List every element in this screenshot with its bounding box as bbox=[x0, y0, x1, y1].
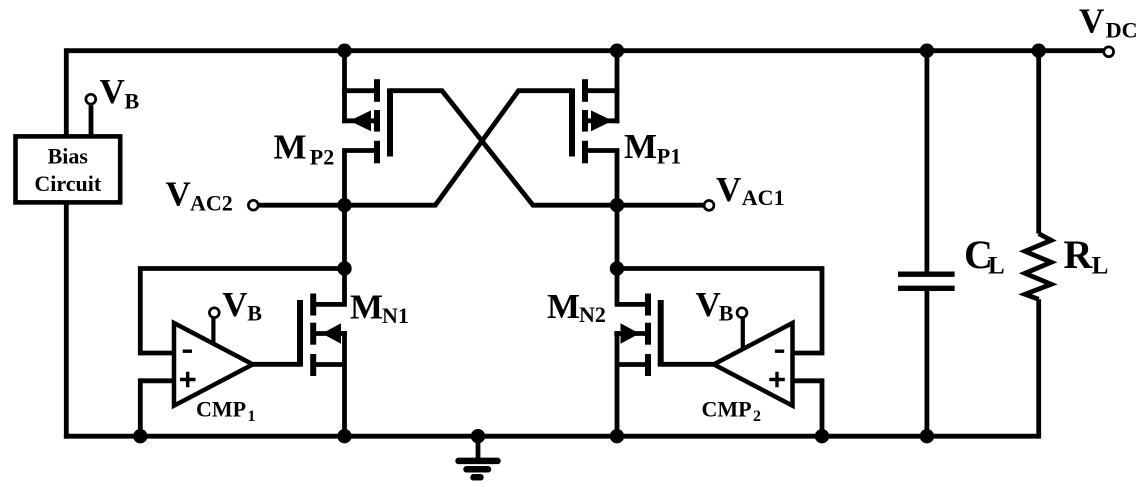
svg-text:L: L bbox=[1092, 253, 1109, 280]
terminal VAC1 bbox=[617, 201, 714, 211]
svg-text:CMP: CMP bbox=[196, 396, 246, 421]
svg-text:P1: P1 bbox=[657, 144, 681, 169]
svg-text:M: M bbox=[547, 287, 580, 326]
label MP2 bbox=[274, 128, 335, 170]
label VB CMP1 bbox=[222, 285, 262, 325]
svg-text:V: V bbox=[716, 170, 741, 209]
junction bottom rail CMP2 plus bbox=[815, 429, 829, 443]
svg-text:B: B bbox=[125, 88, 140, 113]
svg-text:CMP: CMP bbox=[702, 396, 752, 421]
svg-text:L: L bbox=[988, 253, 1005, 280]
svg-text:2: 2 bbox=[753, 408, 761, 425]
terminal VB bias bbox=[86, 94, 96, 137]
svg-text:Circuit: Circuit bbox=[34, 171, 101, 196]
svg-text:V: V bbox=[1079, 2, 1104, 41]
op-amp CMP1 bbox=[140, 269, 344, 439]
svg-text:AC2: AC2 bbox=[190, 191, 233, 216]
nmos MN2 bbox=[614, 266, 660, 439]
svg-text:M: M bbox=[624, 127, 657, 166]
junction top rail CL bbox=[920, 44, 934, 58]
junction bottom rail MN2 source bbox=[610, 429, 624, 443]
svg-text:M: M bbox=[274, 128, 307, 167]
bias circuit box bbox=[16, 136, 121, 202]
svg-text:N1: N1 bbox=[382, 303, 409, 328]
label CMP2 bbox=[702, 396, 762, 425]
terminal VDC bbox=[1104, 47, 1114, 57]
label VB CMP2 bbox=[696, 285, 734, 325]
svg-text:M: M bbox=[350, 288, 383, 327]
wire left vertical rail bbox=[64, 48, 69, 438]
svg-text:P2: P2 bbox=[310, 144, 334, 169]
wire cross-couple MP2 gate to MP1 drain bbox=[390, 91, 617, 206]
svg-text:B: B bbox=[719, 300, 734, 325]
capacitor CL bbox=[898, 48, 955, 438]
junction node VAC2 bbox=[337, 198, 351, 212]
wire cross-couple MP1 gate to MP2 drain bbox=[345, 91, 573, 206]
label RL bbox=[1064, 232, 1109, 280]
junction top rail RL bbox=[1032, 44, 1046, 58]
wire top rail VDC bus bbox=[66, 48, 1103, 53]
svg-text:V: V bbox=[100, 72, 125, 111]
svg-text:V: V bbox=[222, 285, 247, 324]
junction node VAC1 bbox=[610, 198, 624, 212]
junction MN2 drain feedback bbox=[610, 261, 624, 275]
svg-text:DC: DC bbox=[1106, 17, 1138, 42]
label MN1 bbox=[350, 288, 409, 328]
junction bottom rail MN1 source bbox=[337, 429, 351, 443]
junction bottom rail CL bbox=[920, 429, 934, 443]
svg-text:AC1: AC1 bbox=[742, 185, 785, 210]
label VDC bbox=[1079, 2, 1138, 43]
label MP1 bbox=[624, 127, 681, 169]
terminal VAC2 bbox=[248, 200, 344, 210]
nmos MN1 bbox=[300, 266, 347, 439]
op-amp CMP2 bbox=[617, 269, 822, 439]
svg-text:V: V bbox=[166, 174, 191, 213]
svg-text:Bias: Bias bbox=[48, 143, 89, 168]
resistor RL bbox=[1025, 48, 1051, 438]
svg-text:R: R bbox=[1064, 232, 1094, 277]
pmos MP1 bbox=[572, 48, 619, 268]
label VAC1 bbox=[716, 170, 785, 210]
junction top rail MP1 bbox=[610, 44, 624, 58]
svg-text:V: V bbox=[696, 285, 721, 324]
label MN2 bbox=[547, 287, 606, 327]
pmos MP2 bbox=[342, 48, 390, 268]
ground bbox=[459, 436, 498, 477]
junction top rail MP2 bbox=[337, 44, 351, 58]
label VB bias bbox=[100, 72, 140, 114]
svg-text:1: 1 bbox=[248, 408, 256, 425]
svg-text:N2: N2 bbox=[579, 302, 606, 327]
junction bottom rail ground bbox=[471, 429, 485, 443]
label VAC2 bbox=[166, 174, 233, 215]
label CMP1 bbox=[196, 396, 256, 425]
label CL bbox=[964, 232, 1005, 279]
junction bottom rail CMP1 plus bbox=[133, 429, 147, 443]
svg-text:B: B bbox=[247, 300, 262, 325]
junction MN1 drain feedback bbox=[337, 261, 351, 275]
wire bottom ground rail bbox=[64, 434, 1039, 439]
